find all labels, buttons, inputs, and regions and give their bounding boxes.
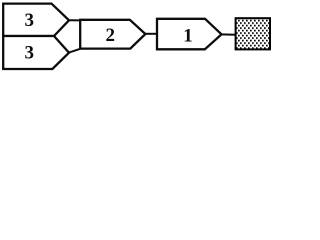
wire: arrow 1 tip to stippled box [221, 33, 236, 35]
stippled terminal box [236, 18, 270, 49]
svg-text:2: 2 [106, 25, 116, 46]
block arrow "1" [157, 19, 222, 50]
svg-text:1: 1 [183, 25, 193, 46]
block arrow bottom-left "3" [3, 36, 69, 69]
wire: arrow 2 tip to arrow 1 [145, 33, 158, 35]
diagram: merge pipeline of block arrows 3,3 -> 2 -> 1 -> hatched box [0, 0, 274, 76]
svg-text:3: 3 [24, 10, 34, 31]
wire: bottom 3-arrow tip to arrow 2 [69, 49, 82, 53]
wire: top 3-arrow tip to arrow 2 [69, 19, 82, 21]
svg-text:3: 3 [24, 43, 34, 64]
block arrow "2" [80, 20, 145, 49]
block arrow top-left "3" [3, 4, 69, 36]
